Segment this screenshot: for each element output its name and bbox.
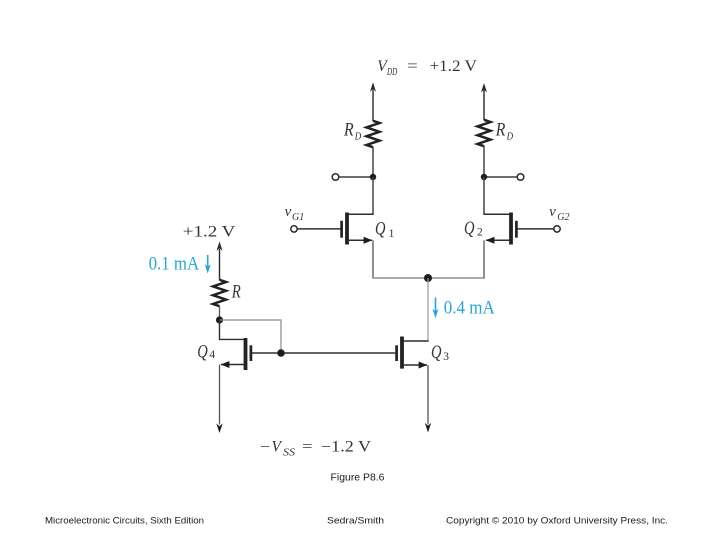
source line Q2 with arrow — [486, 239, 510, 241]
svg-text:−: − — [260, 438, 270, 455]
channel bar Q4 — [244, 338, 248, 370]
gate bar Q4 — [250, 345, 253, 361]
wire common source bus — [372, 277, 484, 279]
svg-text:Q: Q — [464, 218, 475, 239]
svg-text:Microelectronic Circuits, Sixt: Microelectronic Circuits, Sixth Edition — [45, 516, 204, 527]
svg-text:Sedra/Smith: Sedra/Smith — [327, 516, 384, 527]
svg-text:−1.2 V: −1.2 V — [321, 438, 372, 455]
label RD left — [343, 120, 361, 143]
current arrow 0.4 mA — [433, 298, 439, 319]
VDD rail arrow left — [370, 82, 376, 121]
node bias — [216, 316, 223, 323]
wire node to gate bus corner — [220, 320, 282, 353]
transistor Q1 — [342, 213, 374, 245]
svg-text:4: 4 — [209, 349, 215, 361]
wire node to Q1 drain — [372, 177, 374, 214]
arrow Q3 to -VSS — [425, 423, 431, 433]
bias rail arrow — [217, 241, 223, 280]
arrow Q4 to -VSS — [216, 423, 222, 433]
gate bar Q1 — [340, 221, 343, 238]
wire terminal to node left — [339, 176, 373, 178]
output terminal left — [332, 174, 339, 181]
wire RD to node right — [483, 146, 485, 177]
label -VSS = -1.2 V — [260, 438, 372, 458]
svg-text:D: D — [354, 130, 361, 142]
svg-text:Copyright © 2010 by Oxford Uni: Copyright © 2010 by Oxford University Pr… — [446, 516, 668, 527]
label Q1 — [375, 218, 395, 240]
resistor R — [213, 280, 226, 306]
svg-text:G2: G2 — [557, 212, 569, 223]
channel bar Q1 — [345, 213, 349, 245]
label vG1 — [285, 204, 305, 223]
svg-text:3: 3 — [443, 351, 449, 363]
VDD rail arrow right — [481, 83, 487, 120]
svg-text:DD: DD — [386, 67, 397, 78]
wire Q2 source down — [483, 240, 485, 278]
wire R to node — [219, 306, 221, 320]
svg-text:2: 2 — [477, 227, 483, 239]
wire Q4 source down — [219, 365, 221, 425]
gate bus Q4 to Q3 — [252, 352, 395, 354]
svg-text:R: R — [343, 120, 354, 141]
svg-text:V: V — [272, 438, 283, 455]
gate bar Q3 — [395, 345, 398, 361]
wire vG1 to gate — [297, 228, 340, 230]
svg-text:+1.2 V: +1.2 V — [430, 58, 478, 75]
svg-text:+1.2 V: +1.2 V — [183, 223, 236, 240]
svg-text:=: = — [407, 58, 418, 75]
svg-text:SS: SS — [283, 447, 296, 458]
transistor Q2 — [483, 213, 516, 245]
output terminal right — [517, 174, 524, 181]
source line Q4 with arrow — [221, 364, 245, 366]
svg-text:D: D — [506, 130, 513, 142]
svg-text:G1: G1 — [292, 212, 304, 223]
label RD right — [495, 120, 513, 143]
svg-text:Q: Q — [197, 341, 208, 362]
svg-text:R: R — [495, 120, 506, 141]
input terminal vG1 — [291, 226, 297, 232]
node common sources — [424, 274, 432, 282]
source line Q3 with arrow — [403, 364, 427, 366]
source line Q1 with arrow — [348, 239, 372, 241]
svg-text:v: v — [549, 204, 556, 220]
drain line Q3 — [403, 340, 429, 342]
wire node to terminal right — [484, 176, 517, 178]
label Q3 — [431, 342, 449, 363]
drain line Q2 — [483, 213, 510, 215]
node drain Q1 — [370, 174, 376, 180]
node gate bus — [277, 349, 285, 357]
node drain Q2 — [481, 174, 487, 180]
svg-text:Q: Q — [431, 342, 442, 363]
channel bar Q2 — [509, 213, 513, 245]
label Q2 — [464, 218, 483, 239]
wire RD to node left — [372, 147, 374, 177]
svg-text:=: = — [302, 438, 313, 455]
label vG2 — [549, 204, 569, 223]
resistor RD right — [478, 120, 491, 146]
wire Q1 source down — [372, 240, 374, 278]
wire gate to vG2 — [518, 228, 554, 230]
gate bar Q2 — [515, 221, 518, 238]
wire node down to Q4 drain — [220, 320, 245, 339]
transistor Q4 — [221, 338, 251, 370]
wire node to Q3 drain — [427, 278, 429, 341]
input terminal vG2 — [554, 226, 560, 232]
label VDD = +1.2 V — [377, 58, 477, 78]
current arrow 0.1 mA — [205, 255, 211, 274]
wire node to Q2 drain — [483, 177, 485, 214]
svg-text:0.1 mA: 0.1 mA — [149, 255, 200, 275]
svg-text:0.4 mA: 0.4 mA — [444, 299, 496, 319]
label Q4 — [197, 341, 215, 362]
svg-text:v: v — [285, 204, 292, 220]
svg-text:R: R — [231, 281, 241, 302]
svg-text:Figure P8.6: Figure P8.6 — [331, 473, 385, 484]
svg-text:1: 1 — [389, 228, 395, 240]
transistor Q3 — [397, 337, 429, 369]
resistor RD left — [367, 121, 380, 147]
wire Q3 source down — [427, 365, 429, 425]
drain line Q1 — [348, 213, 374, 215]
svg-text:Q: Q — [375, 218, 386, 239]
channel bar Q3 — [400, 337, 404, 369]
